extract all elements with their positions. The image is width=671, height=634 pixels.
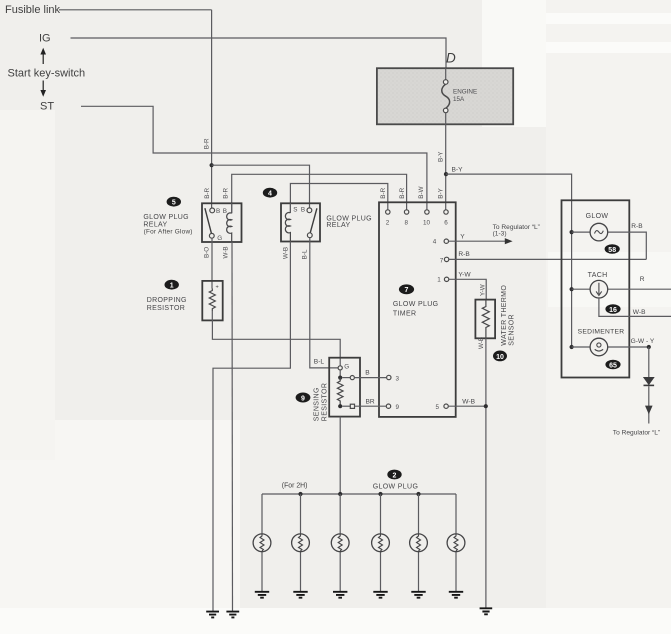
- svg-text:RELAY: RELAY: [326, 222, 350, 229]
- wire R10 to ground junction W-B: [485, 338, 487, 608]
- svg-text:IG: IG: [39, 33, 51, 45]
- ground left W-B line: [226, 612, 239, 618]
- wire R1 to sensing resistor G: [212, 311, 340, 366]
- svg-text:5: 5: [172, 200, 176, 207]
- svg-text:RESISTOR: RESISTOR: [147, 305, 185, 312]
- timer pin 10: [425, 210, 429, 214]
- relay U4 box: [281, 203, 320, 241]
- svg-text:10: 10: [423, 220, 431, 227]
- resistor R1 box: [202, 281, 222, 321]
- wire IG to fuse: [71, 38, 447, 68]
- wire diode to regulator with arrow: [648, 386, 650, 423]
- wire relay U4 coil W-B to left ground line: [213, 242, 290, 612]
- glow plug 5: [410, 494, 428, 598]
- svg-text:B-L: B-L: [302, 249, 309, 259]
- svg-text:1: 1: [170, 283, 174, 290]
- svg-text:G: G: [217, 235, 222, 242]
- svg-text:S: S: [293, 206, 297, 213]
- junction gauge feed tach: [570, 287, 574, 291]
- svg-text:Y: Y: [460, 234, 465, 241]
- wire relay 4 coil to timer pin 2: [290, 184, 387, 213]
- timer pin 2: [386, 210, 390, 214]
- ground W-B: [480, 608, 493, 614]
- svg-text:W-B: W-B: [462, 398, 475, 405]
- fuse ENGINE 15A box: [377, 68, 513, 124]
- relay U5 marker: [167, 197, 181, 207]
- arrow down key-switch: [42, 81, 44, 93]
- relay U4 coil: [289, 203, 291, 213]
- svg-text:B-Y: B-Y: [438, 187, 445, 198]
- svg-text:R-B: R-B: [458, 251, 470, 258]
- junction sedimenter output: [647, 345, 651, 349]
- svg-text:W-B: W-B: [223, 246, 230, 258]
- svg-text:10: 10: [496, 354, 504, 361]
- svg-text:9: 9: [396, 404, 400, 411]
- sensing resistor R9 box: [329, 358, 360, 417]
- sensor R10 marker: [493, 351, 507, 362]
- R9 element: [339, 370, 341, 378]
- wire glow plug bus: [262, 493, 456, 495]
- R9 tap B to timer pin 3: [342, 377, 350, 379]
- junction gauge feed sedimenter: [570, 345, 574, 349]
- R9 tap BR to timer pin 9: [342, 405, 350, 407]
- R9 pin G: [338, 366, 342, 370]
- svg-text:Y-W: Y-W: [458, 271, 471, 278]
- svg-text:65: 65: [609, 362, 617, 369]
- wire fusible link vertical to relay 5: [211, 10, 213, 208]
- svg-text:D: D: [446, 51, 456, 66]
- svg-text:To Regulator “L”: To Regulator “L”: [613, 430, 660, 437]
- svg-text:(For After Glow): (For After Glow): [144, 229, 193, 236]
- resistor R1 marker: [165, 280, 179, 290]
- timer pin 9: [386, 404, 390, 408]
- relay U5 box: [202, 203, 242, 242]
- junction pin5/sensor: [484, 404, 488, 408]
- arrow up key-switch: [42, 52, 44, 64]
- relay U5 coil: [231, 203, 233, 213]
- timer pin 3: [387, 375, 391, 379]
- svg-text:+: +: [216, 285, 219, 291]
- glow plug 6: [447, 494, 465, 598]
- svg-text:B-R: B-R: [204, 138, 211, 149]
- svg-text:2: 2: [386, 220, 390, 227]
- svg-text:1: 1: [437, 277, 441, 284]
- svg-text:G-W - Y: G-W - Y: [631, 338, 655, 345]
- wire B-Y to gauge box: [446, 174, 572, 347]
- svg-text:15A: 15A: [453, 96, 465, 103]
- timer pin 6: [444, 210, 448, 214]
- resistor R9 marker: [296, 393, 311, 403]
- svg-text:Start key-switch: Start key-switch: [8, 68, 86, 80]
- svg-text:B-O: B-O: [204, 247, 211, 258]
- timer marker: [399, 284, 414, 294]
- glow plug 2: [292, 494, 310, 598]
- svg-text:GLOW PLUG: GLOW PLUG: [143, 214, 189, 221]
- glow plug G2 marker: [387, 470, 401, 480]
- svg-text:SENSING: SENSING: [314, 387, 321, 421]
- glow plug 3: [331, 494, 349, 598]
- svg-text:4: 4: [268, 191, 272, 198]
- wire relay U5 G to dropping resistor (B-O): [211, 238, 213, 288]
- svg-text:B: B: [301, 206, 305, 213]
- svg-text:B-R: B-R: [204, 188, 211, 199]
- svg-text:7: 7: [405, 287, 409, 294]
- svg-text:B: B: [365, 370, 370, 377]
- wire ST to timer pin 10: [81, 106, 427, 210]
- junction gauge feed glow: [570, 230, 574, 234]
- svg-text:9: 9: [301, 395, 305, 402]
- svg-text:B-R: B-R: [380, 187, 387, 198]
- svg-text:B-Y: B-Y: [452, 166, 464, 173]
- svg-text:DROPPING: DROPPING: [147, 297, 187, 304]
- junction fusible to relay 4 branch: [210, 163, 214, 167]
- svg-text:58: 58: [608, 247, 616, 254]
- svg-text:GLOW: GLOW: [586, 213, 609, 220]
- wire fuse output B-Y: [445, 113, 447, 210]
- svg-text:Fusible link: Fusible link: [5, 4, 61, 16]
- svg-text:W-B: W-B: [282, 247, 289, 259]
- water thermo sensor R10 box: [475, 300, 495, 339]
- svg-text:TIMER: TIMER: [393, 310, 417, 317]
- glow plug 1 (For 2H): [253, 494, 271, 598]
- svg-text:Y-W: Y-W: [480, 284, 487, 296]
- svg-text:G: G: [344, 363, 349, 370]
- svg-text:16: 16: [609, 307, 617, 314]
- svg-text:2: 2: [393, 472, 397, 479]
- glow plug timer U7 box: [379, 202, 456, 417]
- ground left B-O line: [206, 612, 219, 618]
- svg-text:TACH: TACH: [588, 272, 608, 279]
- svg-text:6: 6: [444, 220, 448, 227]
- svg-text:5: 5: [436, 404, 440, 411]
- svg-text:7: 7: [440, 257, 444, 264]
- svg-text:B-L: B-L: [314, 359, 325, 366]
- diode D1: [648, 347, 650, 377]
- gauge cluster box: [562, 200, 630, 377]
- relay U5 switch: [210, 208, 215, 213]
- svg-text:B-R: B-R: [222, 188, 229, 199]
- svg-text:B-W: B-W: [418, 186, 425, 198]
- resistor R1 element: [209, 289, 215, 312]
- svg-text:R-B: R-B: [631, 223, 643, 230]
- svg-text:B: B: [223, 208, 227, 215]
- wire tach W-B output: [599, 298, 671, 316]
- svg-text:RESISTOR: RESISTOR: [322, 383, 329, 421]
- svg-text:SENSOR: SENSOR: [508, 314, 515, 346]
- svg-text:3: 3: [396, 375, 400, 382]
- svg-text:W-B: W-B: [633, 309, 646, 316]
- svg-text:B-Y: B-Y: [438, 151, 445, 162]
- svg-text:B: B: [216, 208, 220, 215]
- svg-text:4: 4: [433, 239, 437, 246]
- svg-text:B-R: B-R: [399, 187, 406, 198]
- svg-text:GLOW PLUG: GLOW PLUG: [393, 301, 439, 308]
- svg-text:R: R: [640, 276, 645, 283]
- R10 resistor element: [482, 300, 489, 339]
- svg-text:ENGINE: ENGINE: [453, 89, 477, 96]
- junction B-Y: [444, 172, 448, 176]
- svg-text:BR: BR: [366, 398, 375, 405]
- svg-text:(For 2H): (For 2H): [282, 483, 308, 490]
- svg-text:8: 8: [405, 220, 409, 227]
- svg-text:ST: ST: [40, 101, 54, 113]
- svg-text:W-B: W-B: [478, 337, 485, 349]
- fuse element: [445, 68, 447, 79]
- wire relay U5 coil to ground (W-B): [231, 242, 234, 611]
- svg-text:(1-3): (1-3): [493, 231, 507, 238]
- wire fusible branch to relay 4 switch: [212, 165, 310, 208]
- wire relay 5 coil to timer pin 8: [232, 174, 407, 213]
- wire relay U4 switch B-L to sensing resistor G: [310, 238, 338, 368]
- svg-text:SEDIMENTER: SEDIMENTER: [578, 328, 625, 335]
- glow plug 4: [372, 494, 390, 598]
- svg-text:WATER THERMO: WATER THERMO: [501, 285, 508, 346]
- timer pin 8: [404, 210, 408, 214]
- wire R9 to glow plug bus: [339, 417, 341, 494]
- relay U4 marker: [263, 188, 277, 198]
- svg-text:GLOW PLUG: GLOW PLUG: [373, 484, 419, 491]
- wire fusible link horizontal: [59, 9, 212, 11]
